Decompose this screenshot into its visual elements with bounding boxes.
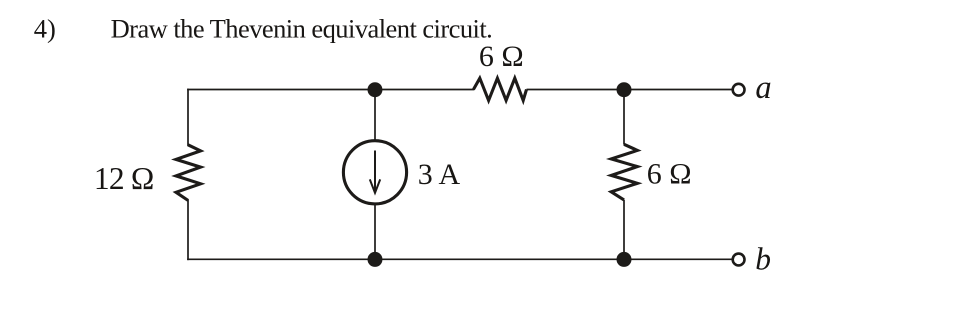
problem number label "4)" [34,14,56,44]
svg-text:6 Ω: 6 Ω [479,40,524,73]
value label 6 ohm for R3 [647,157,692,190]
current source I1 arrow (downward) [370,151,380,193]
svg-text:12 Ω: 12 Ω [94,161,154,196]
svg-text:4): 4) [34,14,56,44]
terminal b open circle [733,254,745,266]
wire: left branch lower vertical [187,200,189,259]
resistor R2 (6 ohm, top horizontal) [474,78,527,100]
wire: top horizontal right segment [527,89,732,91]
svg-text:3 A: 3 A [418,158,461,191]
svg-text:a: a [755,70,771,106]
wire: bottom horizontal segment [188,258,732,260]
wire: right branch upper vertical [623,90,625,145]
resistor R1 (12 ohm, left branch) [176,145,201,201]
terminal a open circle [733,84,745,96]
svg-text:Draw the Thevenin equivalent c: Draw the Thevenin equivalent circuit. [111,13,493,43]
wire: middle branch upper vertical [374,90,376,142]
node label b [755,241,771,276]
wire: top horizontal left segment [188,89,474,91]
current source I1 circle [343,141,406,204]
value label 12 ohm for R1 [94,161,154,196]
value label 3 A for I1 [418,158,461,191]
svg-text:6 Ω: 6 Ω [647,157,692,190]
wire: middle branch lower vertical [374,204,376,260]
svg-text:b: b [755,241,771,276]
value label 6 ohm for R2 [479,40,524,73]
wire: left branch upper vertical [187,90,189,146]
node junction dot: top middle [368,82,383,97]
title text [111,13,493,43]
node junction dot: bottom right [617,252,632,267]
wire: right branch lower vertical [623,200,625,259]
node junction dot: bottom middle [368,252,383,267]
node junction dot: top right [617,82,632,97]
node label a [755,70,771,106]
resistor R3 (6 ohm, right branch) [611,144,637,200]
